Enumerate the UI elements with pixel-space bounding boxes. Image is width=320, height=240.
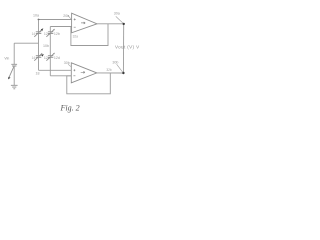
wire: source vertical lower to ground [13,66,15,85]
svg-text:10b: 10b [43,44,49,48]
node: wire A corner junction dot [38,19,40,21]
svg-text:30b: 30b [112,61,118,65]
wire: bottom bridge output to U2 + input [39,69,72,71]
arrow: variable source pointer [9,67,14,78]
arrowhead of capacitor 12b [53,29,55,31]
node: U1 output junction dot [123,23,125,25]
svg-text:Fig. 2: Fig. 2 [60,104,80,113]
wire: bridge right branch to U1 - input (node B) [50,26,71,28]
svg-text:32b: 32b [106,68,112,72]
plus input marker U1 [74,18,76,20]
svg-text:14: 14 [32,32,36,36]
wire: output bus vertical between nodes [122,24,124,73]
capacitor 12a (variable, top-left) [34,29,42,37]
signal arrow inside U1 [81,22,85,24]
svg-text:10a: 10a [33,14,39,18]
wire: U1 output [97,23,124,25]
arrowhead of capacitor 12d [53,53,55,55]
svg-text:Vin: Vin [4,57,9,61]
ground [11,85,18,89]
wire: Vin feed to bridge midpoint [14,42,38,44]
leader line 20a [68,15,71,19]
arrowhead of capacitor 12c [41,54,44,56]
svg-text:32a: 32a [73,34,79,38]
svg-text:14: 14 [32,56,36,60]
wire: right bridge vertical branch [49,27,51,76]
leader line 32b [117,64,123,72]
svg-text:30a: 30a [114,12,120,16]
signal arrow inside U2 [81,71,85,73]
arrowhead of capacitor 12a [41,28,44,31]
node: U2 output junction dot [122,72,124,74]
feedback loop U2 [67,73,111,94]
leader line 30a [116,16,123,23]
wire: top bridge output to U1 + input (node A) [39,19,72,21]
wire: left bridge vertical branch [38,20,40,71]
wire: right branch bottom to U2 - input [50,75,71,77]
capacitor 12b (variable, top-right) [46,29,54,37]
capacitor 12c (variable, bottom-left) [34,53,42,61]
op-amp U2 [71,63,97,83]
wire: U2 output [97,72,124,74]
plus input marker U2 [73,69,75,71]
minus input marker U1 [74,26,76,28]
svg-text:30b: 30b [64,61,70,65]
capacitor 12d (variable, bottom-right) [46,53,54,61]
svg-text:12d: 12d [54,56,60,60]
svg-text:Vout (V) V: Vout (V) V [115,45,140,50]
op-amp U1 [72,13,97,33]
svg-text:12b: 12b [54,32,60,36]
capacitor 16 (source coupling) [11,64,17,66]
arrowhead of source pointer [8,77,11,80]
leader line 30b (near U2) [68,64,71,66]
minus input marker U2 [73,75,75,77]
svg-text:18: 18 [36,72,40,76]
feedback loop U1 [71,24,108,46]
wire: source vertical upper [13,43,15,64]
